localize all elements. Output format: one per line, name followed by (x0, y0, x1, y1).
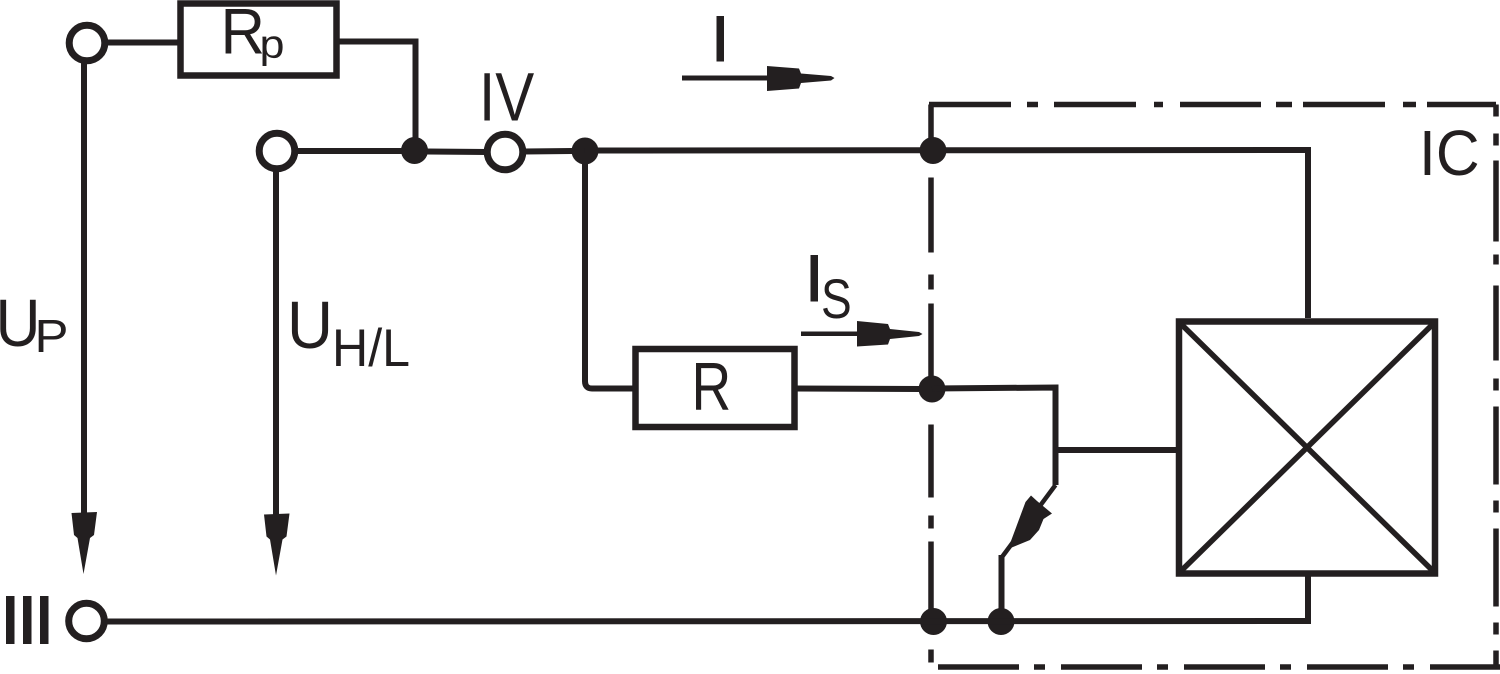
label U_H/L (287, 288, 410, 378)
wire node to transistor collector (932, 388, 1056, 486)
label IC (1419, 117, 1480, 189)
svg-text:IV: IV (479, 59, 534, 136)
node (junction dot) on IC boundary, top rail (920, 137, 947, 164)
svg-text:IC: IC (1419, 117, 1480, 189)
arrowhead U_P (72, 512, 98, 574)
IC boundary top (dash-dot) (929, 102, 1496, 108)
wire sensor bottom lead (1308, 573, 1311, 621)
svg-text:R: R (692, 349, 732, 425)
IC boundary right (dash-dot) (1493, 105, 1499, 668)
label R (692, 349, 732, 425)
arrow I_S (sensor current) (801, 321, 923, 347)
terminal III (ground) (69, 603, 105, 639)
wire emitter down to node (999, 555, 1005, 614)
wire main top rail to IC and down to sensor (585, 150, 1308, 318)
resistor Rp (181, 4, 337, 76)
node (junction dot) below Rp (401, 137, 428, 164)
svg-text:H/L: H/L (332, 319, 410, 378)
resistor R (636, 349, 795, 427)
svg-text:S: S (821, 267, 852, 330)
wire tap down to R (585, 164, 636, 389)
label I (717, 16, 725, 62)
arrowhead U_H/L (264, 514, 290, 576)
wire base branch to sensor block (1056, 447, 1182, 453)
wire terminal U_H/L to node (296, 148, 403, 154)
node (junction dot) at tap (572, 138, 599, 165)
wire III rail (106, 618, 1306, 625)
wire U_H/L (vertical below terminal) (273, 170, 279, 518)
svg-text:U: U (287, 288, 333, 363)
wire R to node (795, 386, 921, 393)
label III (6, 596, 49, 644)
sensor block (Hall element) (1179, 322, 1435, 574)
terminal (supply) top-left (69, 25, 105, 61)
label U_P (0, 286, 69, 362)
label I_S (811, 255, 852, 330)
wire Rp to corner and down to node (337, 42, 416, 146)
terminal (U_H/L) (259, 133, 295, 169)
label Rp (221, 0, 285, 68)
wire terminal to Rp (106, 40, 182, 46)
svg-text:p: p (260, 23, 285, 67)
node (junction dot) emitter on III rail (988, 608, 1015, 635)
arrowhead transistor emitter (1008, 496, 1052, 550)
wire node to terminal IV (427, 149, 487, 156)
label IV (479, 59, 534, 136)
node (junction dot) IC boundary on III rail (920, 608, 947, 635)
wire terminal IV to node (524, 148, 572, 155)
IC boundary bottom (dash-dot) (931, 664, 1500, 670)
svg-text:P: P (35, 310, 69, 362)
arrow I (current direction) (682, 66, 835, 91)
node (junction dot) output on IC boundary (919, 376, 946, 403)
transistor output (emitter diagonal) (1002, 485, 1056, 557)
IC boundary left (dash-dot) (928, 105, 934, 668)
sensor block diagonal 1 (1181, 324, 1433, 571)
terminal IV (487, 134, 523, 170)
wire U_P (vertical below terminal) (81, 61, 87, 516)
sensor block diagonal 2 (1181, 324, 1433, 571)
svg-text:R: R (221, 0, 266, 68)
